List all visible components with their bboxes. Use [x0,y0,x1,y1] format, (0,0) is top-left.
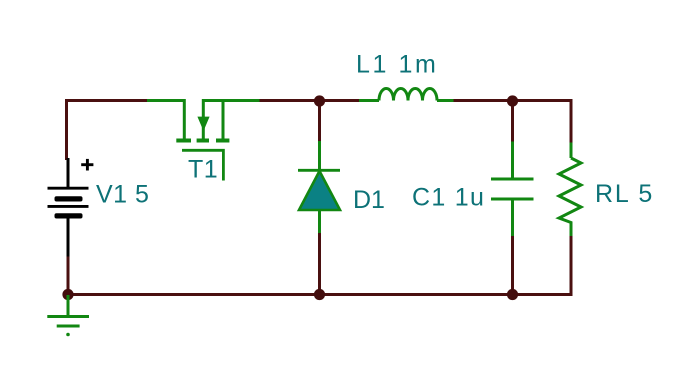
svg-text:V1 5: V1 5 [96,181,149,209]
svg-text:RL 5: RL 5 [595,180,654,208]
svg-text:L1 1m: L1 1m [356,51,438,79]
svg-text:C1 1u: C1 1u [412,184,485,212]
svg-text:D1: D1 [353,186,385,214]
svg-text:T1: T1 [188,156,218,184]
